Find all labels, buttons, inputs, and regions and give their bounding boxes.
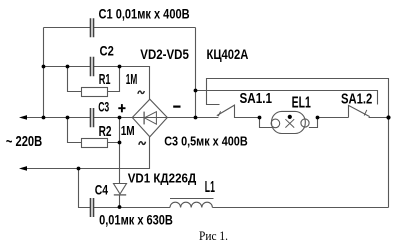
svg-text:EL1: EL1 (292, 94, 311, 111)
svg-text:КЦ402А: КЦ402А (207, 47, 249, 62)
svg-text:SA1.2: SA1.2 (341, 91, 372, 107)
svg-text:C3: C3 (98, 99, 109, 114)
svg-text:R1: R1 (99, 72, 111, 88)
svg-text:С3 0,5мк х 400В: С3 0,5мк х 400В (164, 134, 248, 149)
svg-text:L1: L1 (205, 179, 215, 196)
svg-text:1М: 1М (121, 123, 135, 138)
svg-text:C1 0,01мк х 400В: C1 0,01мк х 400В (99, 6, 190, 22)
svg-text:Рис 1.: Рис 1. (199, 229, 228, 243)
svg-text:VD1 КД226Д: VD1 КД226Д (128, 171, 197, 186)
svg-text:1М: 1М (126, 71, 138, 88)
svg-text:C4: C4 (95, 181, 108, 197)
svg-text:0,01мк х 630В: 0,01мк х 630В (99, 213, 173, 228)
svg-text:SA1.1: SA1.1 (240, 91, 273, 107)
svg-text:C2: C2 (100, 43, 114, 58)
svg-text:R2: R2 (99, 123, 112, 140)
svg-text:VD2-VD5: VD2-VD5 (140, 46, 189, 62)
svg-text:~ 220В: ~ 220В (6, 134, 42, 150)
